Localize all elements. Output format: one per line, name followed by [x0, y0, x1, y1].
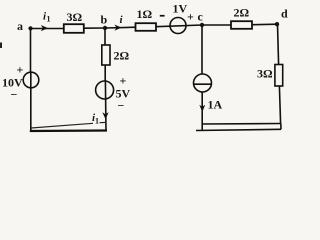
svg-text:1: 1 — [47, 15, 51, 24]
wire a to 3ohm — [31, 28, 64, 30]
svg-text:a: a — [17, 19, 23, 33]
current arrow 1A (down) — [199, 105, 205, 112]
svg-text:1V: 1V — [173, 2, 188, 16]
bottom rail right loop right edge — [280, 124, 282, 130]
wire c down to current source — [201, 25, 203, 75]
svg-text:+: + — [120, 74, 127, 88]
svg-text:b: b — [101, 13, 108, 27]
current arrow i1 (top left) — [41, 25, 48, 31]
resistor 3ohm top — [64, 24, 84, 33]
node a dot — [28, 26, 32, 30]
wire 3ohm right down to rail — [279, 86, 280, 124]
svg-text:+: + — [17, 63, 24, 77]
resistor 2ohm middle — [102, 45, 110, 65]
wire 1ohm to c through source — [156, 25, 202, 27]
scan edge artifact left — [0, 43, 2, 49]
node d dot — [275, 22, 279, 26]
svg-text:1A: 1A — [208, 98, 223, 112]
svg-text:−: − — [11, 88, 18, 102]
wire c to 2ohm — [202, 24, 231, 26]
wire 2ohm to 5V source — [104, 65, 106, 82]
svg-text:2Ω: 2Ω — [114, 49, 130, 63]
bottom rail right loop top line — [202, 123, 281, 126]
wire 3ohm to b — [84, 27, 105, 29]
middle branch wire b down — [104, 28, 106, 45]
wire b to 1ohm — [105, 26, 136, 29]
label minus of 1V — [160, 15, 165, 17]
svg-text:1: 1 — [95, 117, 99, 126]
bottom rail left loop — [30, 129, 107, 132]
svg-text:d: d — [281, 7, 288, 21]
bottom rail right loop bottom line — [196, 129, 281, 130]
wire through 10V source — [30, 73, 32, 89]
svg-text:−: − — [118, 99, 125, 113]
wire 1A source down to rail — [201, 92, 203, 131]
current source 1A circle — [194, 74, 212, 92]
resistor 3ohm right — [275, 65, 283, 87]
wire d down to 3ohm — [278, 24, 279, 64]
wire 2ohm to d — [252, 23, 277, 26]
svg-text:3Ω: 3Ω — [257, 67, 273, 81]
resistor 1ohm — [136, 23, 157, 31]
resistor 2ohm top right — [231, 21, 252, 29]
current arrow i1 (middle branch, down) — [102, 112, 108, 119]
left branch wire bottom — [30, 88, 32, 132]
svg-text:1Ω: 1Ω — [137, 7, 153, 21]
node c dot — [200, 23, 204, 27]
bottom rail left loop ghost line — [31, 123, 93, 128]
svg-text:2Ω: 2Ω — [234, 6, 250, 20]
current source chord — [194, 83, 211, 85]
node b dot — [103, 26, 107, 30]
bottom rail left loop ghost stub — [100, 121, 107, 123]
voltage source 5V circle — [96, 81, 114, 99]
left branch wire top — [30, 29, 32, 73]
voltage source 1V circle — [170, 18, 186, 34]
current arrow i (top middle) — [114, 25, 121, 31]
svg-text:+: + — [187, 10, 194, 24]
wire through 5V source down to rail — [104, 82, 107, 132]
voltage source 10V circle — [23, 72, 39, 88]
svg-text:3Ω: 3Ω — [67, 10, 83, 24]
svg-text:c: c — [198, 10, 204, 24]
